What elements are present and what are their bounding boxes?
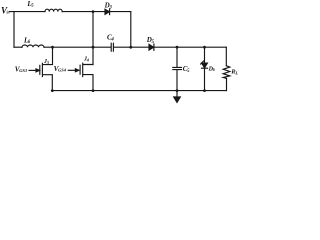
wire C5 branch upper [176,47,178,67]
diode D6 [202,63,208,68]
junction dot middle rail x=52.5 [51,46,54,49]
transistor J3 [40,47,53,90]
wire ground stem [176,91,178,97]
svg-text:J4: J4 [83,57,89,63]
junction dot top rail x=93 [92,10,95,13]
junction dot bottom rail x=52.3 [51,89,54,92]
junction dot middle rail x=177 [176,46,179,49]
diode D3 [105,9,109,14]
ground [174,97,181,102]
wire vertical top rail to middle rail at x=131 [130,12,132,48]
wire middle rail right segment [154,46,226,48]
transistor J4 [80,63,93,90]
inductor L5 [45,9,62,11]
resistor RL [223,66,230,79]
wire RL branch upper [225,47,227,66]
inductor L6 [22,45,44,47]
wire D6 branch upper [204,47,206,63]
svg-text:RL: RL [230,69,238,76]
svg-text:J3: J3 [43,59,49,65]
wire bottom rail [52,90,226,92]
svg-text:D6: D6 [208,67,216,73]
wire D6 branch lower [204,68,206,90]
wire RL branch lower [226,78,228,90]
wire top rail middle segment [62,11,105,13]
junction dot middle rail x=93 [92,46,95,49]
wire middle rail C4 to D5 [114,46,149,48]
wire vertical from Vin to middle rail [13,12,15,48]
wire vertical x=93 from top rail through middle rail to J4 drain [92,12,94,65]
junction dot bottom rail x=93 [92,89,95,92]
junction dot middle rail x=204.5 [203,46,206,49]
junction dot middle rail x=130.8 [129,46,132,49]
gate arrow VGS4 [68,69,75,71]
junction dot bottom rail x=204.5 [203,89,206,92]
wire top rail right segment [110,11,131,13]
wire top rail left segment [10,11,46,13]
diode D5 [149,44,154,50]
wire middle rail to C4 [44,46,111,48]
gate arrow VGS3 [29,69,36,71]
wire middle rail left stub [14,46,22,48]
capacitor C5 [173,67,182,69]
junction dot bottom rail x=177 [176,89,179,92]
capacitor C4 [111,43,113,51]
node Vin label [0,0,1,1]
wire C5 branch lower [176,70,178,91]
